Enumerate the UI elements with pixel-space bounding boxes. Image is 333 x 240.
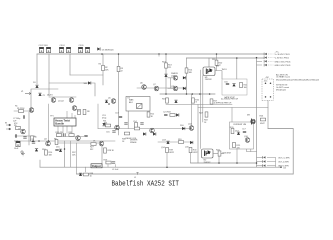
diode D11 xyxy=(190,141,193,144)
inductor tick xyxy=(136,173,138,175)
transistor Q17 xyxy=(99,141,104,146)
diode D1 xyxy=(97,47,114,51)
svg-text:2SK182: 2SK182 xyxy=(204,162,212,164)
right top connector rows xyxy=(256,51,292,67)
capacitor C1 xyxy=(39,47,43,52)
resistor R23 xyxy=(218,151,232,156)
pin 2 xyxy=(270,83,272,85)
capacitor C10 xyxy=(14,141,20,147)
resistor R20 xyxy=(215,60,223,65)
snubber box M1 xyxy=(222,79,248,99)
resistor R4 xyxy=(84,81,91,85)
capacitor C20 xyxy=(84,135,87,136)
input pair xyxy=(51,98,90,115)
wire: x98 drop xyxy=(97,104,99,129)
svg-text:R23 0R47: R23 0R47 xyxy=(223,153,233,155)
node GND row xyxy=(257,60,292,63)
node OUT- row xyxy=(257,160,290,163)
svg-text:L1 2uH: L1 2uH xyxy=(112,169,119,171)
source resistor right xyxy=(251,116,266,125)
wire: x167 to bus xyxy=(166,153,168,168)
svg-text:GND 0 VDC PSU1: GND 0 VDC PSU1 xyxy=(275,65,292,67)
pin 4 xyxy=(270,96,272,98)
wire: rail x103 xyxy=(102,54,104,85)
tick node xyxy=(158,54,160,57)
resistor R24 xyxy=(230,127,234,134)
wire: x70.5 drop xyxy=(70,141,72,167)
diode D9 xyxy=(174,100,177,103)
transistor Q9 xyxy=(164,74,167,77)
diode D8 xyxy=(183,87,186,90)
right notes block xyxy=(266,73,320,91)
wire: gate line xa xyxy=(200,70,202,149)
wire: bottom line y174 xyxy=(77,173,294,175)
scattered value labels xyxy=(15,59,266,171)
capacitor C6 xyxy=(85,47,89,52)
wire: y111 link xyxy=(14,110,33,112)
junction xyxy=(256,57,258,59)
top decoupling row xyxy=(39,45,238,59)
resistor R13 xyxy=(165,63,173,68)
second stage / bias xyxy=(102,85,159,140)
capacitor C3 xyxy=(59,47,63,52)
wire: right spine upper xyxy=(256,58,258,168)
wire: fb stub x40 xyxy=(39,160,41,167)
svg-text:2SA970: 2SA970 xyxy=(171,72,179,75)
junction dots on bus xyxy=(165,93,167,95)
wire: rail x70 xyxy=(69,54,71,75)
output label xyxy=(91,164,102,168)
node SGND row xyxy=(257,164,290,167)
resistor R28 xyxy=(104,148,115,153)
resistor R18 xyxy=(204,112,208,122)
current source arrow xyxy=(21,91,31,95)
resistor R29 xyxy=(106,161,111,164)
wire: left loop x31 xyxy=(31,89,58,111)
svg-text:R1 221K: R1 221K xyxy=(17,108,25,110)
diode D6 xyxy=(153,132,156,135)
left lower parts row xyxy=(14,139,59,156)
resistor R6 xyxy=(31,136,34,141)
svg-text:2SJ74: 2SJ74 xyxy=(47,95,53,97)
capacitor C8 xyxy=(15,134,16,137)
wire: VAS rail x166 xyxy=(165,54,167,94)
capacitor C4 xyxy=(66,47,70,52)
transistor Q5 xyxy=(111,99,116,104)
resistor R15 xyxy=(166,98,169,103)
svg-text:C1C2 1KU: C1C2 1KU xyxy=(39,45,49,47)
wire: x232 stub to prot box xyxy=(231,108,233,123)
resistor R8 xyxy=(83,109,90,114)
comp row 2 xyxy=(164,113,179,116)
resistor R5 xyxy=(14,125,21,129)
svg-text:4x 2SK182 PER CH: 4x 2SK182 PER CH xyxy=(221,99,239,101)
capacitor C2 xyxy=(46,47,50,52)
diode D7 xyxy=(183,76,186,79)
resistor R16 xyxy=(192,98,195,103)
transistor Q13 xyxy=(166,141,169,144)
wire: rail x118.5 xyxy=(118,54,120,135)
wire: lower rail y164 xyxy=(191,162,257,164)
wire: VAS bus y94 xyxy=(160,93,215,95)
transistor Q16 xyxy=(245,138,250,143)
resistor R19 xyxy=(178,141,183,144)
resistor R2 xyxy=(102,65,110,71)
svg-text:STAGE: STAGE xyxy=(130,141,137,144)
zobel network xyxy=(79,173,94,178)
resistor R27 xyxy=(90,143,96,149)
wire: link y107.5 xyxy=(198,107,268,109)
pin 1 xyxy=(265,83,267,85)
capacitor C19 xyxy=(64,133,65,136)
resistor R26 xyxy=(260,116,266,121)
ground xyxy=(20,150,24,154)
wire: bias chain y88 xyxy=(137,87,187,89)
resistor R3 xyxy=(117,66,124,72)
transistor Q3 xyxy=(72,106,77,111)
resistor R9 xyxy=(55,139,58,144)
LED D3 xyxy=(35,85,38,88)
SIT output device 2 xyxy=(202,149,258,164)
junction xyxy=(38,140,40,142)
resistor R32 xyxy=(69,132,75,136)
transistor Q7 xyxy=(154,86,159,91)
wire: x76.5 drop xyxy=(76,143,78,174)
svg-text:D1 MUR3020: D1 MUR3020 xyxy=(102,50,115,52)
resistor R25 xyxy=(233,142,241,147)
mosfet M3 xyxy=(251,119,256,125)
wire: x29 input rail xyxy=(28,112,30,145)
RCA jack J1 xyxy=(5,123,11,127)
node OUT+ row xyxy=(257,156,291,159)
transistor Q20 xyxy=(29,108,34,113)
bias servo box xyxy=(126,97,150,112)
capacitor C5 xyxy=(78,47,82,52)
wire: row link xyxy=(56,136,84,138)
svg-text:M1,Q11,M3,Q14,Q17,M10,M13,Q6,M: M1,Q11,M3,Q14,Q17,M10,M13,Q6,M5,Q7,M2,Q1… xyxy=(276,80,320,82)
wire: nfb link y143 xyxy=(55,142,99,144)
resistor R12 xyxy=(147,112,155,117)
svg-text:GND 0 VDC PSU1: GND 0 VDC PSU1 xyxy=(275,61,292,63)
capacitor C16 xyxy=(226,83,229,84)
wire: h-link y75 xyxy=(70,74,103,76)
wire: stub x216.5 R20 xyxy=(216,54,218,71)
svg-text:2SK182: 2SK182 xyxy=(205,79,213,81)
svg-text:Output: Output xyxy=(92,164,101,168)
wire: M2 source xyxy=(213,153,224,155)
svg-text:R31 470: R31 470 xyxy=(56,132,64,134)
wire: prot box bottom legs xyxy=(247,149,257,152)
svg-text:41C: 41C xyxy=(264,81,268,83)
wire: M1 drain xyxy=(215,71,222,80)
capacitor C7 xyxy=(13,115,25,120)
wire: ticks on bottom bus xyxy=(93,165,116,168)
wire: x64.5 drop xyxy=(64,141,66,167)
diode D13 xyxy=(237,132,240,135)
wire: zobel stub x85.5 xyxy=(85,167,87,172)
jack pin 2 xyxy=(6,128,11,130)
svg-text:CURRENT LIM: CURRENT LIM xyxy=(233,124,246,126)
svg-text:CG: CG xyxy=(283,168,286,170)
node V- row xyxy=(264,56,290,59)
wire: x190.5 to rail xyxy=(190,153,192,163)
resistor R35 xyxy=(134,127,139,130)
wire: x128.2 drop xyxy=(127,111,129,129)
svg-text:Q1 Q2: Q1 Q2 xyxy=(58,101,65,103)
jfet J2 xyxy=(21,129,26,134)
junction dots on rail xyxy=(101,53,103,55)
capacitor C11 xyxy=(32,142,35,143)
pin 3 xyxy=(265,96,267,98)
bus end node xyxy=(280,166,286,169)
wire: input h y136 xyxy=(15,135,35,137)
svg-text:C21 R34: C21 R34 xyxy=(163,112,171,114)
wire: gate line xb xyxy=(202,76,204,123)
transistor Q2 xyxy=(69,98,74,103)
wire: bottom bus y167.2 xyxy=(40,166,281,168)
wire: center h y128.5 xyxy=(98,128,192,130)
svg-text:V- 36 VDC PSU1: V- 36 VDC PSU1 xyxy=(275,58,290,60)
wire: rail x198 xyxy=(197,105,199,164)
node V+ row xyxy=(264,53,290,56)
transistor Q19 xyxy=(150,128,155,133)
ground 2 xyxy=(21,152,25,156)
feedback divider row xyxy=(56,132,88,140)
wire: second top rail xyxy=(187,57,265,59)
wire: rail x49 xyxy=(48,54,50,96)
wire: driver row y142 xyxy=(158,141,192,143)
diode D10 xyxy=(182,127,185,130)
SIT output device 1 xyxy=(203,60,248,104)
left bias network xyxy=(17,65,124,112)
wire: stubs into box top xyxy=(67,111,75,118)
node EARTH row xyxy=(257,64,292,67)
capacitor C9 xyxy=(23,137,26,138)
wire: cs links xyxy=(168,78,174,89)
svg-text:On HEAT mount: On HEAT mount xyxy=(276,76,290,79)
capacitor C18 xyxy=(112,162,115,163)
wire: output node x102 xyxy=(101,146,103,167)
svg-text:4x IRFP240 PER CH: 4x IRFP240 PER CH xyxy=(214,103,232,105)
wire: left rail drop x37 xyxy=(36,54,38,84)
wire: input pair tail x48.5 xyxy=(48,104,50,141)
transistor Q8 xyxy=(115,125,120,130)
resistor R14 xyxy=(185,68,193,73)
resistor R17 xyxy=(210,99,213,104)
transistor Q12 xyxy=(189,126,194,131)
wire skeleton xyxy=(14,54,293,174)
resistor R21 xyxy=(240,82,248,87)
wire: x275.6 drop xyxy=(275,157,277,167)
capacitor C13 xyxy=(102,115,122,119)
capacitor C15 xyxy=(106,131,116,134)
VAS column xyxy=(130,63,213,168)
protection subcircuit box xyxy=(230,122,254,149)
diode D12 xyxy=(232,84,235,87)
extra value labels xyxy=(13,65,248,156)
right bottom connector rows xyxy=(257,156,291,170)
transistor Q18 xyxy=(76,136,81,141)
svg-text:OUT- to SPK: OUT- to SPK xyxy=(278,161,290,164)
wire: input pair top y97 xyxy=(49,96,76,98)
svg-text:41C: 41C xyxy=(266,77,270,79)
heavy twist bundle callout box xyxy=(54,111,76,137)
resistor R31 xyxy=(56,132,64,136)
wire: stubs out of box bottom xyxy=(58,126,72,137)
svg-text:Bundle: Bundle xyxy=(55,122,64,126)
resistor R7 xyxy=(78,109,81,114)
transistor Q11 xyxy=(173,86,178,91)
output network bottom center xyxy=(59,139,139,179)
junction xyxy=(166,166,168,168)
junction xyxy=(64,148,66,150)
resistor R40 xyxy=(189,147,197,152)
wire: x219 drop xyxy=(218,156,220,163)
diode D17 xyxy=(102,123,105,126)
wire: h-link y83 xyxy=(49,83,95,96)
svg-text:V+ 36 VDC PSU1: V+ 36 VDC PSU1 xyxy=(275,54,291,56)
wire: rail x236.8 xyxy=(236,58,238,79)
junction dots rail xyxy=(218,162,220,164)
heatsink dashed outline xyxy=(262,79,274,101)
transistor Q6 xyxy=(142,85,147,90)
diode D5 xyxy=(143,132,146,135)
diode D4 xyxy=(35,149,38,152)
mosfet M1 xyxy=(203,67,215,81)
svg-text:R28 1K: R28 1K xyxy=(108,150,115,152)
resistor R10 xyxy=(45,150,53,155)
mosfet M2 xyxy=(202,149,214,164)
zener Z1 xyxy=(38,93,41,96)
diode D15 xyxy=(59,149,62,152)
wire: right loop top xyxy=(268,129,293,175)
diode D16 xyxy=(105,100,108,103)
parts cluster c14 xyxy=(124,121,143,128)
transistor Q10 xyxy=(173,76,178,81)
svg-text:Babelfish XA252 SIT: Babelfish XA252 SIT xyxy=(112,180,180,188)
wire: left bottom bus y141 xyxy=(17,140,115,142)
svg-text:ADJ: ADJ xyxy=(129,101,133,104)
resistor R33 xyxy=(124,132,129,135)
transistor Q4 xyxy=(46,141,51,146)
capacitor C17 xyxy=(242,129,246,133)
resistor R11 xyxy=(104,123,111,127)
transistor Q1 xyxy=(51,98,56,103)
wire: x191.6 drop xyxy=(191,94,193,126)
svg-text:M7,Q8,Q21: M7,Q8,Q21 xyxy=(276,89,287,91)
wire: stub x209 to M1 xyxy=(208,58,210,67)
resistor R39 xyxy=(166,147,174,152)
input connector area xyxy=(5,115,33,154)
wire: link y104.5 xyxy=(166,104,232,106)
wire: rail x186.5 xyxy=(186,58,188,94)
svg-text:OUT+ to SPK: OUT+ to SPK xyxy=(278,156,290,159)
junction q5 xyxy=(108,103,110,105)
capacitor C12 xyxy=(55,149,58,150)
wire: top rail V+ xyxy=(37,53,264,55)
wire: x268 drop xyxy=(267,101,269,129)
resistor R1 xyxy=(17,108,25,112)
wire: x237 drop xyxy=(236,149,238,163)
